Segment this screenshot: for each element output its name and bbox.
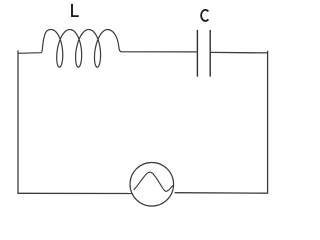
label C xyxy=(201,10,208,21)
capacitor C1 left plate xyxy=(196,30,198,77)
inductor L1: top-left wire, coil of 4 humps with 3 loops, wire to capacitor xyxy=(18,30,197,68)
capacitor C1 right plate xyxy=(209,30,211,77)
AC source V1 circle body xyxy=(130,163,174,207)
wire: right vertical with corner tick xyxy=(267,51,269,194)
wire: bottom horizontal left of AC source xyxy=(17,192,132,194)
circuit schematic: series L-C loop with AC source xyxy=(0,0,280,217)
wire: bottom horizontal right of AC source xyxy=(175,192,268,195)
wire: left vertical with corner tick xyxy=(17,50,19,193)
wire: right plate to top-right corner xyxy=(211,51,268,54)
AC source sine wave xyxy=(134,172,173,191)
label L xyxy=(71,4,79,17)
